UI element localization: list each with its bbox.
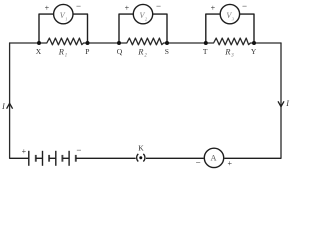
wire top-left segment and left/bottom frame bbox=[10, 38, 281, 158]
svg-text:−: − bbox=[76, 1, 81, 11]
current arrow left (up) bbox=[7, 103, 13, 108]
svg-text:1: 1 bbox=[65, 17, 67, 22]
ammeter A bbox=[204, 148, 223, 167]
node T bbox=[204, 41, 208, 45]
wire between cell 1 and cell 2 bbox=[36, 157, 43, 159]
svg-text:S: S bbox=[165, 47, 169, 56]
wire node P to node Q bbox=[88, 42, 120, 44]
battery cell 1 long plate bbox=[28, 151, 30, 166]
svg-text:+: + bbox=[125, 4, 130, 13]
key K right contact arc bbox=[143, 154, 145, 162]
battery cell 3 long plate bbox=[55, 151, 57, 166]
voltmeter V2 bbox=[133, 4, 152, 23]
svg-text:R: R bbox=[137, 47, 144, 57]
svg-text:+: + bbox=[22, 147, 27, 156]
svg-text:I: I bbox=[285, 99, 289, 108]
wire between cell 3 and cell 4 bbox=[62, 157, 69, 159]
node P bbox=[86, 41, 90, 45]
node X bbox=[37, 41, 41, 45]
svg-text:1: 1 bbox=[65, 54, 67, 59]
wire node Y to top-right corner bbox=[254, 42, 281, 44]
wire node S to node T bbox=[167, 42, 206, 44]
svg-text:Y: Y bbox=[251, 47, 257, 56]
wire right vertical bbox=[280, 43, 282, 158]
voltmeter V3 loop wires bbox=[206, 14, 254, 43]
svg-text:R: R bbox=[224, 47, 231, 57]
wire ammeter to bottom-right corner bbox=[224, 157, 281, 159]
node Q bbox=[117, 41, 121, 45]
resistor R1 bbox=[39, 38, 88, 45]
svg-text:−: − bbox=[242, 1, 247, 11]
svg-text:−: − bbox=[156, 1, 161, 11]
battery cell 2 long plate bbox=[42, 151, 44, 166]
svg-text:+: + bbox=[228, 159, 233, 168]
battery cell 4 short plate bbox=[75, 155, 77, 162]
current arrow right (down) bbox=[278, 101, 284, 106]
wire key K to ammeter bbox=[146, 157, 204, 159]
key K left contact arc bbox=[137, 154, 139, 162]
voltmeter V1 loop wires bbox=[39, 14, 88, 43]
wire left vertical bbox=[9, 43, 11, 158]
wire top: left corner to node X bbox=[10, 42, 39, 44]
svg-text:−: − bbox=[76, 145, 81, 155]
svg-text:+: + bbox=[211, 4, 216, 13]
svg-text:A: A bbox=[211, 153, 217, 162]
resistor R2 bbox=[119, 38, 167, 45]
battery cell 2 short plate bbox=[48, 155, 50, 162]
wire battery to key K bbox=[76, 157, 136, 159]
wire bottom: left corner to battery bbox=[10, 157, 29, 159]
svg-text:R: R bbox=[58, 47, 65, 57]
svg-text:+: + bbox=[45, 4, 50, 13]
svg-text:K: K bbox=[138, 143, 144, 152]
svg-text:P: P bbox=[85, 47, 89, 56]
svg-text:Q: Q bbox=[117, 47, 123, 56]
battery cell 1 short plate bbox=[35, 155, 37, 162]
battery cell 3 short plate bbox=[61, 155, 63, 162]
battery cell 4 long plate bbox=[68, 151, 70, 166]
key K plug dot bbox=[139, 156, 142, 159]
wire between cell 2 and cell 3 bbox=[49, 157, 56, 159]
resistor R3 bbox=[206, 38, 254, 45]
voltmeter V1 bbox=[54, 4, 73, 23]
node S bbox=[165, 41, 169, 45]
svg-text:−: − bbox=[196, 158, 201, 168]
voltmeter V3 bbox=[220, 4, 239, 23]
svg-text:X: X bbox=[36, 47, 42, 56]
svg-text:I: I bbox=[1, 102, 5, 111]
svg-text:T: T bbox=[203, 47, 208, 56]
node Y bbox=[252, 41, 256, 45]
voltmeter V2 loop wires bbox=[119, 14, 167, 43]
